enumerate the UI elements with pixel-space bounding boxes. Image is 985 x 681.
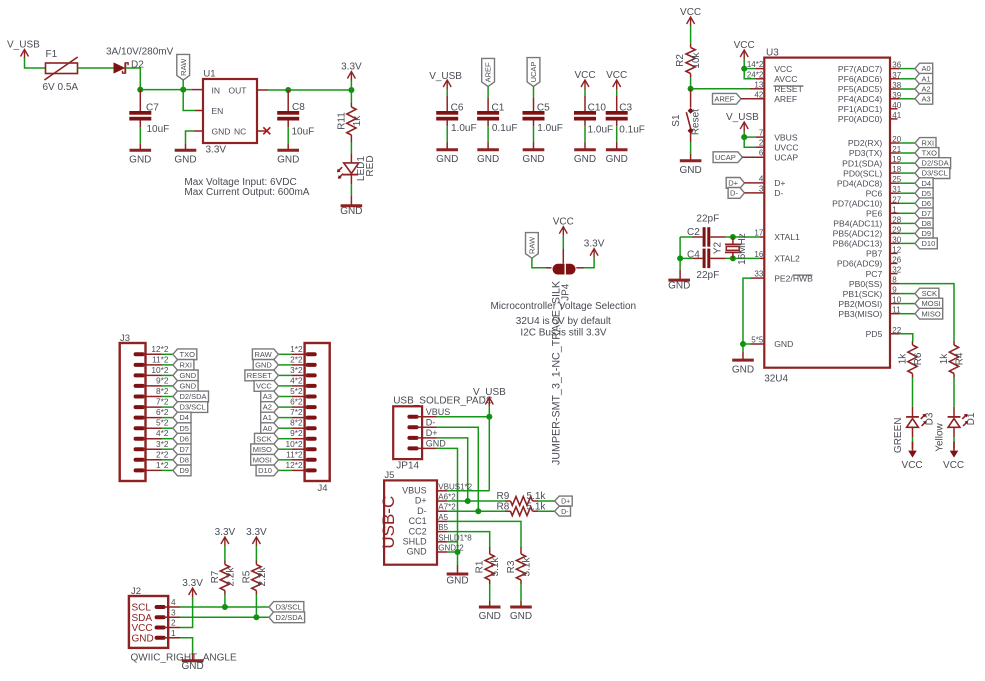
svg-text:Microcontroller Voltage Select: Microcontroller Voltage Selection	[490, 301, 636, 312]
svg-text:PB0(SS): PB0(SS)	[849, 279, 883, 289]
svg-text:1.0uF: 1.0uF	[588, 124, 614, 135]
svg-text:VCC: VCC	[680, 7, 701, 18]
svg-text:16: 16	[754, 250, 763, 259]
svg-text:A6*2: A6*2	[438, 493, 456, 502]
svg-text:GND: GND	[574, 154, 596, 165]
svg-text:1.0uF: 1.0uF	[537, 123, 563, 134]
svg-text:J3: J3	[120, 333, 130, 344]
svg-text:A2: A2	[263, 403, 272, 412]
svg-text:D10: D10	[922, 239, 936, 248]
svg-text:F1: F1	[46, 49, 58, 60]
svg-text:D2/SDA: D2/SDA	[922, 159, 949, 168]
svg-text:3.3V: 3.3V	[584, 239, 605, 250]
svg-text:D8: D8	[922, 219, 932, 228]
svg-text:GND: GND	[174, 155, 196, 166]
svg-text:RAW: RAW	[528, 236, 537, 254]
svg-text:Yellow: Yellow	[935, 422, 946, 451]
svg-text:R1: R1	[475, 560, 486, 573]
svg-text:PD1(SDA): PD1(SDA)	[842, 158, 882, 168]
svg-text:11*2: 11*2	[286, 449, 303, 459]
svg-text:1k: 1k	[898, 353, 909, 365]
svg-text:B5: B5	[438, 523, 448, 532]
svg-text:D-: D-	[561, 509, 569, 516]
svg-text:GND: GND	[510, 611, 532, 622]
svg-text:C10: C10	[588, 102, 607, 113]
svg-text:Reset: Reset	[691, 109, 702, 135]
svg-text:U1: U1	[203, 69, 215, 80]
svg-text:D+: D+	[728, 179, 738, 188]
svg-text:IN: IN	[212, 85, 221, 95]
svg-text:UCAP: UCAP	[715, 153, 736, 162]
svg-text:PD5: PD5	[866, 329, 883, 339]
svg-text:A1: A1	[922, 74, 931, 83]
svg-text:A3: A3	[263, 392, 272, 401]
svg-text:RXI: RXI	[922, 139, 935, 148]
svg-text:V_USB: V_USB	[726, 112, 759, 123]
svg-text:GND: GND	[340, 206, 362, 217]
svg-text:D7: D7	[922, 209, 932, 218]
svg-text:22pF: 22pF	[696, 214, 719, 225]
svg-text:1k: 1k	[939, 353, 950, 365]
svg-text:3: 3	[759, 184, 764, 193]
svg-text:RAW: RAW	[254, 350, 272, 359]
svg-text:5.1k: 5.1k	[490, 557, 501, 577]
svg-text:7: 7	[759, 129, 764, 138]
svg-text:10*2: 10*2	[151, 365, 168, 375]
svg-text:3.3V: 3.3V	[215, 527, 236, 538]
svg-text:D+: D+	[426, 428, 438, 438]
svg-text:A2: A2	[922, 85, 931, 94]
svg-text:GND: GND	[426, 439, 447, 449]
svg-text:D9: D9	[179, 466, 189, 475]
svg-text:3.3V: 3.3V	[341, 61, 362, 72]
svg-text:3A/10V/280mV: 3A/10V/280mV	[106, 47, 174, 58]
svg-text:PB7: PB7	[866, 249, 882, 259]
svg-text:GND: GND	[179, 382, 196, 391]
svg-text:PD0(SCL): PD0(SCL)	[843, 168, 882, 178]
svg-text:GND: GND	[479, 611, 501, 622]
svg-text:PF4(ADC4): PF4(ADC4)	[838, 94, 883, 104]
svg-text:GND: GND	[132, 633, 154, 644]
svg-text:J2: J2	[131, 586, 141, 597]
svg-text:24*2: 24*2	[747, 70, 764, 79]
svg-text:5.1k: 5.1k	[522, 557, 533, 577]
svg-text:4: 4	[759, 174, 764, 183]
svg-text:U3: U3	[766, 48, 779, 59]
svg-text:C5: C5	[537, 102, 550, 113]
svg-text:MISO: MISO	[253, 445, 272, 454]
svg-text:D-: D-	[774, 188, 783, 198]
svg-text:C6: C6	[451, 102, 464, 113]
svg-text:VCC: VCC	[553, 217, 574, 228]
svg-text:XTAL2: XTAL2	[774, 254, 800, 264]
svg-text:CC1: CC1	[409, 516, 427, 526]
svg-text:13: 13	[754, 81, 763, 90]
svg-text:32U4 is 5V by default: 32U4 is 5V by default	[516, 316, 611, 327]
svg-text:SHLD: SHLD	[403, 537, 428, 547]
svg-text:I2C Bus is still 3.3V: I2C Bus is still 3.3V	[520, 327, 606, 338]
svg-text:PB1(SCK): PB1(SCK)	[843, 289, 883, 299]
svg-text:VCC: VCC	[606, 70, 627, 81]
svg-text:A7*2: A7*2	[438, 503, 456, 512]
svg-text:V_USB: V_USB	[473, 387, 506, 398]
svg-text:AREF: AREF	[774, 94, 797, 104]
svg-text:2*2: 2*2	[290, 354, 303, 364]
svg-text:PB5(ADC12): PB5(ADC12)	[833, 229, 883, 239]
svg-text:TXO: TXO	[922, 149, 938, 158]
svg-text:PB2(MOSI): PB2(MOSI)	[838, 299, 882, 309]
svg-text:R3: R3	[506, 560, 517, 573]
svg-text:D-: D-	[417, 506, 427, 516]
svg-text:42: 42	[754, 90, 763, 99]
svg-text:PB6(ADC13): PB6(ADC13)	[833, 239, 883, 249]
svg-text:RXI: RXI	[179, 361, 192, 370]
svg-text:4: 4	[171, 597, 176, 607]
svg-text:GND: GND	[774, 339, 793, 349]
svg-text:PD6(ADC9): PD6(ADC9)	[837, 259, 883, 269]
svg-text:A5: A5	[438, 513, 448, 522]
svg-text:10k: 10k	[691, 51, 702, 68]
svg-text:GND: GND	[212, 126, 231, 136]
svg-text:GREEN: GREEN	[893, 418, 904, 454]
svg-text:VCC: VCC	[734, 40, 755, 51]
svg-text:VBUS1*2: VBUS1*2	[438, 482, 472, 491]
svg-text:USB-C: USB-C	[379, 496, 398, 549]
svg-text:GND: GND	[181, 661, 203, 672]
svg-text:VCC: VCC	[902, 460, 923, 471]
svg-text:9*2: 9*2	[156, 375, 169, 385]
svg-text:D8: D8	[179, 455, 189, 464]
svg-text:C1: C1	[492, 102, 505, 113]
svg-text:D7: D7	[179, 445, 189, 454]
svg-text:D9: D9	[922, 229, 932, 238]
svg-text:0.1uF: 0.1uF	[619, 124, 645, 135]
svg-text:CC2: CC2	[409, 526, 427, 536]
svg-text:1*2: 1*2	[156, 460, 169, 470]
svg-text:VCC: VCC	[774, 64, 792, 74]
svg-text:R11: R11	[337, 112, 348, 130]
svg-text:3.3V: 3.3V	[182, 578, 203, 589]
svg-text:V_USB: V_USB	[7, 40, 40, 51]
svg-text:6*2: 6*2	[156, 407, 169, 417]
svg-text:2.2k: 2.2k	[225, 567, 236, 587]
svg-text:AREF: AREF	[484, 62, 493, 82]
svg-text:D+: D+	[774, 178, 785, 188]
svg-text:D2: D2	[131, 60, 144, 71]
svg-text:GND: GND	[179, 371, 196, 380]
svg-text:RED: RED	[365, 155, 376, 176]
svg-text:GND: GND	[436, 154, 458, 165]
svg-text:A1: A1	[263, 413, 272, 422]
svg-text:J5: J5	[384, 470, 394, 481]
svg-text:22pF: 22pF	[696, 270, 719, 281]
svg-text:MISO: MISO	[922, 309, 941, 318]
svg-text:8*2: 8*2	[290, 418, 303, 428]
svg-text:D-: D-	[730, 189, 738, 198]
svg-text:32U4: 32U4	[764, 374, 788, 385]
svg-text:PD3(TX): PD3(TX)	[849, 148, 883, 158]
svg-text:D6: D6	[179, 434, 189, 443]
svg-text:SCK: SCK	[922, 289, 937, 298]
svg-text:SCK: SCK	[256, 434, 271, 443]
svg-text:GND: GND	[732, 364, 754, 375]
svg-text:10uF: 10uF	[292, 127, 315, 138]
svg-text:J4: J4	[318, 483, 328, 494]
svg-text:GND: GND	[129, 155, 151, 166]
svg-text:RAW: RAW	[179, 58, 188, 76]
svg-text:C8: C8	[292, 102, 305, 113]
svg-text:1*2: 1*2	[290, 344, 303, 354]
svg-text:R4: R4	[955, 352, 966, 365]
svg-text:4*2: 4*2	[156, 428, 169, 438]
svg-text:D-: D-	[426, 418, 436, 428]
svg-text:S1: S1	[671, 114, 682, 127]
svg-text:UCAP: UCAP	[774, 152, 798, 162]
svg-text:PF7(ADC7): PF7(ADC7)	[838, 64, 883, 74]
svg-text:3*2: 3*2	[156, 439, 169, 449]
svg-text:GND: GND	[277, 155, 299, 166]
svg-text:D5: D5	[922, 189, 932, 198]
svg-text:8*2: 8*2	[156, 386, 169, 396]
svg-text:3*2: 3*2	[290, 365, 303, 375]
svg-text:2*2: 2*2	[156, 449, 169, 459]
svg-text:PC6: PC6	[866, 188, 883, 198]
svg-text:AVCC: AVCC	[774, 74, 797, 84]
svg-text:VBUS: VBUS	[774, 132, 798, 142]
svg-text:1k: 1k	[352, 115, 363, 127]
svg-text:C7: C7	[146, 103, 159, 114]
svg-text:AREF: AREF	[714, 94, 734, 103]
svg-text:R6: R6	[913, 352, 924, 365]
svg-text:12*2: 12*2	[151, 344, 168, 354]
svg-text:PB3(MISO): PB3(MISO)	[838, 309, 882, 319]
svg-text:10uF: 10uF	[147, 124, 170, 135]
svg-text:Y2: Y2	[713, 241, 724, 254]
svg-text:5*2: 5*2	[290, 386, 303, 396]
svg-text:D2/SDA: D2/SDA	[179, 392, 206, 401]
svg-text:5.1k: 5.1k	[527, 491, 547, 502]
svg-text:GND: GND	[679, 165, 701, 176]
svg-text:0.1uF: 0.1uF	[492, 123, 518, 134]
svg-text:D5: D5	[179, 424, 189, 433]
svg-text:SHLD1*8: SHLD1*8	[438, 533, 472, 542]
svg-text:D10: D10	[258, 466, 272, 475]
svg-text:PF5(ADC5): PF5(ADC5)	[838, 84, 883, 94]
svg-text:OUT: OUT	[229, 85, 247, 95]
svg-text:PD7(ADC10): PD7(ADC10)	[832, 199, 882, 209]
svg-text:14*2: 14*2	[747, 60, 764, 69]
svg-text:VBUS: VBUS	[402, 486, 427, 496]
svg-text:16MHz: 16MHz	[737, 233, 748, 265]
svg-text:12*2: 12*2	[286, 460, 303, 470]
svg-text:TXO: TXO	[179, 350, 195, 359]
svg-text:GND: GND	[446, 576, 468, 587]
svg-text:PC7: PC7	[866, 269, 883, 279]
svg-text:XTAL1: XTAL1	[774, 232, 800, 242]
svg-text:D6: D6	[922, 199, 932, 208]
svg-text:R9: R9	[497, 491, 510, 502]
svg-text:RESET: RESET	[247, 371, 272, 380]
svg-text:6*2: 6*2	[290, 397, 303, 407]
svg-text:D4: D4	[179, 413, 189, 422]
svg-text:2: 2	[759, 139, 764, 148]
svg-text:UVCC: UVCC	[774, 142, 798, 152]
svg-text:R2: R2	[675, 54, 686, 67]
svg-text:GND: GND	[522, 154, 544, 165]
svg-text:1.0uF: 1.0uF	[451, 123, 477, 134]
svg-text:4*2: 4*2	[290, 375, 303, 385]
svg-text:D4: D4	[922, 179, 932, 188]
svg-text:EN: EN	[212, 106, 224, 116]
svg-text:D1: D1	[966, 412, 977, 425]
svg-text:2: 2	[171, 618, 176, 628]
svg-text:GND: GND	[477, 154, 499, 165]
svg-text:Max Current Output: 600mA: Max Current Output: 600mA	[184, 187, 309, 198]
svg-text:A0: A0	[922, 64, 931, 73]
svg-text:11*2: 11*2	[152, 354, 169, 364]
svg-text:D2/SDA: D2/SDA	[276, 613, 303, 622]
svg-text:PE6: PE6	[866, 209, 882, 219]
svg-text:PB4(ADC11): PB4(ADC11)	[833, 219, 882, 229]
svg-text:NC: NC	[234, 126, 246, 136]
svg-text:VCC: VCC	[943, 460, 964, 471]
svg-text:6: 6	[759, 149, 764, 158]
svg-text:3: 3	[171, 608, 176, 618]
svg-text:D3/SCL: D3/SCL	[922, 169, 948, 178]
svg-text:VCC: VCC	[256, 382, 272, 391]
svg-text:10*2: 10*2	[286, 439, 303, 449]
svg-text:GND: GND	[255, 361, 272, 370]
svg-text:JP4: JP4	[561, 283, 572, 301]
svg-text:VBUS: VBUS	[426, 407, 451, 417]
svg-text:R8: R8	[497, 501, 510, 512]
svg-text:6V 0.5A: 6V 0.5A	[43, 82, 79, 93]
svg-text:V_USB: V_USB	[429, 71, 462, 82]
svg-text:17: 17	[754, 229, 763, 238]
svg-text:3.3V: 3.3V	[206, 145, 227, 156]
svg-text:MOSI: MOSI	[253, 455, 272, 464]
svg-text:D3/SCL: D3/SCL	[276, 603, 302, 612]
svg-text:GND: GND	[668, 281, 690, 292]
svg-text:PF6(ADC6): PF6(ADC6)	[838, 74, 883, 84]
svg-text:PF0(ADC0): PF0(ADC0)	[838, 114, 883, 124]
svg-text:7*2: 7*2	[290, 407, 303, 417]
svg-text:1: 1	[171, 628, 176, 638]
svg-text:PD4(ADC8): PD4(ADC8)	[837, 178, 883, 188]
svg-text:GND: GND	[606, 154, 628, 165]
svg-text:A3: A3	[922, 94, 931, 103]
svg-text:5*5: 5*5	[751, 336, 764, 345]
svg-text:7*2: 7*2	[156, 397, 169, 407]
svg-text:5.1k: 5.1k	[527, 501, 547, 512]
svg-text:9*2: 9*2	[290, 428, 303, 438]
svg-text:2.2k: 2.2k	[257, 567, 268, 587]
svg-text:MOSI: MOSI	[922, 299, 941, 308]
svg-text:D3/SCL: D3/SCL	[179, 403, 205, 412]
svg-text:C3: C3	[619, 102, 632, 113]
svg-text:VCC: VCC	[574, 70, 595, 81]
svg-text:33: 33	[754, 270, 763, 279]
svg-text:R5: R5	[242, 570, 253, 583]
svg-text:A0: A0	[263, 424, 272, 433]
svg-text:JP14: JP14	[396, 460, 419, 471]
svg-text:GND: GND	[407, 547, 428, 557]
svg-text:PD2(RX): PD2(RX)	[848, 138, 883, 148]
svg-text:PF1(ADC1): PF1(ADC1)	[838, 104, 883, 114]
svg-text:3.3V: 3.3V	[246, 527, 267, 538]
svg-text:5*2: 5*2	[156, 418, 169, 428]
svg-text:R7: R7	[210, 570, 221, 583]
svg-text:C2: C2	[687, 227, 700, 238]
svg-text:D+: D+	[561, 499, 570, 506]
svg-text:UCAP: UCAP	[529, 62, 538, 83]
svg-text:D+: D+	[415, 496, 427, 506]
